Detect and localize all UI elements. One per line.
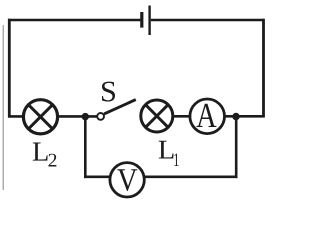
lamp L2 (23, 100, 57, 134)
wire middle-left: left corner to switch pivot (8, 115, 97, 118)
node B (junction of ammeter, right wire, voltmeter) (232, 113, 239, 120)
wire middle-right: L1 through ammeter to right corner (141, 115, 265, 118)
wire top-left: battery to top-left corner (8, 19, 141, 22)
wire voltmeter right vertical (235, 117, 238, 179)
label L1 (159, 141, 174, 159)
switch S lever (open) (104, 100, 136, 114)
node A (junction of L2, switch, voltmeter) (82, 113, 89, 120)
switch S pivot (97, 113, 104, 120)
label S (102, 82, 115, 102)
wire right vertical (262, 19, 265, 118)
wire left vertical (8, 19, 11, 118)
label L2 (33, 143, 48, 161)
wire top-right: battery to top-right corner (151, 19, 265, 22)
voltmeter V (110, 163, 144, 197)
lamp L1 (141, 100, 173, 132)
ammeter A (190, 99, 225, 134)
battery B1 (142, 6, 150, 36)
wire voltmeter left vertical (84, 117, 87, 179)
wire voltmeter bottom horizontal (84, 176, 237, 179)
